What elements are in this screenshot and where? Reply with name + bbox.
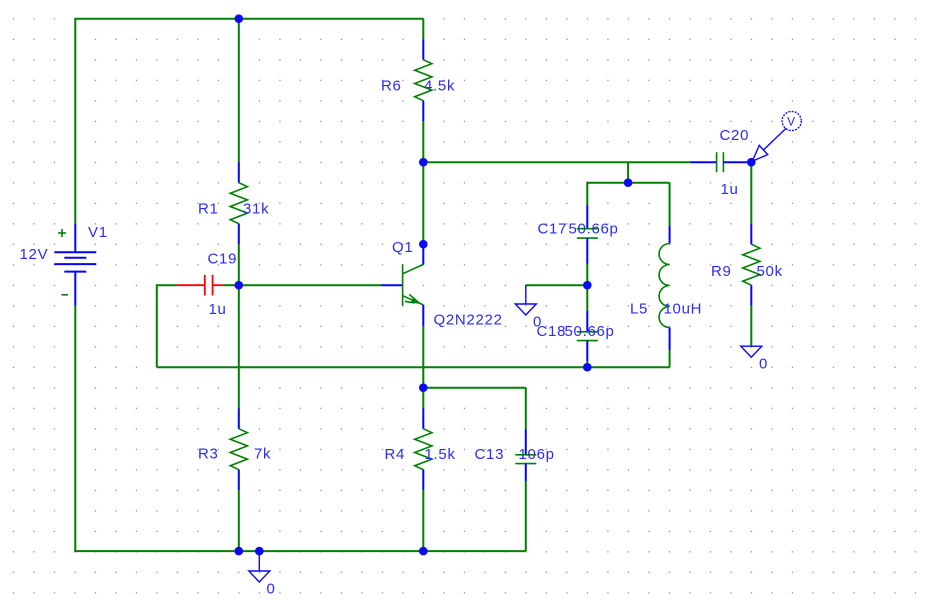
svg-text:31k: 31k <box>243 201 269 218</box>
capacitor C17 <box>577 182 598 286</box>
label 1u (C19) <box>209 301 227 318</box>
label R3 <box>198 446 219 463</box>
junction top rail / R1 <box>235 14 244 23</box>
svg-text:7k: 7k <box>254 446 271 463</box>
wire left rail upper <box>74 18 76 224</box>
label R4 <box>385 446 406 463</box>
voltage probe V <box>752 111 801 161</box>
svg-text:C17: C17 <box>538 221 568 238</box>
ground (R9) <box>741 346 762 357</box>
svg-text:R4: R4 <box>385 446 406 463</box>
ground (bottom rail) <box>249 551 270 582</box>
label R1 <box>198 201 219 218</box>
resistor R6 <box>415 39 432 121</box>
svg-text:106p: 106p <box>519 446 555 463</box>
svg-text:V1: V1 <box>88 224 108 241</box>
label 31k <box>243 201 269 218</box>
label V (probe) <box>787 115 796 129</box>
label 106p <box>519 446 555 463</box>
label R6 <box>381 78 402 95</box>
wire collector rail <box>423 161 690 163</box>
label 10uH <box>664 301 703 318</box>
svg-text:L5: L5 <box>630 301 648 318</box>
label Q1 <box>392 239 413 256</box>
svg-text:R3: R3 <box>198 446 219 463</box>
wire tank drop <box>627 162 629 183</box>
label C13 <box>475 446 505 463</box>
label 0 (tank ground) <box>533 314 542 331</box>
resistor R3 <box>230 285 247 551</box>
junction bottom rail / R3 <box>235 547 244 556</box>
label 0 (bottom ground) <box>267 581 276 598</box>
wire feedback bottom run <box>157 366 670 368</box>
junction bottom rail / ground <box>255 547 264 556</box>
wire tank top branch <box>587 182 669 184</box>
svg-text:V: V <box>787 115 796 129</box>
label 50.66p (C18) <box>565 323 615 340</box>
svg-text:R1: R1 <box>198 201 219 218</box>
svg-text:Q1: Q1 <box>392 239 413 256</box>
svg-text:1.5k: 1.5k <box>425 446 456 463</box>
svg-text:10uH: 10uH <box>664 301 703 318</box>
svg-text:0: 0 <box>759 356 768 373</box>
wire top rail <box>75 18 423 20</box>
junction collector rail / R6 <box>419 158 428 167</box>
svg-text:50k: 50k <box>757 263 783 280</box>
wire left rail lower <box>74 306 76 551</box>
junction tank top <box>624 178 633 187</box>
junction tank bottom <box>583 363 592 372</box>
junction base node <box>235 281 244 290</box>
svg-text:4.5k: 4.5k <box>424 78 455 95</box>
capacitor C20 <box>690 152 752 172</box>
ground (tank midpoint) <box>515 285 536 315</box>
label R9 <box>711 263 732 280</box>
junction output node <box>747 158 756 167</box>
capacitor C13 <box>515 388 536 551</box>
wire ground spur (tank midpoint) <box>526 284 588 286</box>
svg-text:C20: C20 <box>720 127 750 144</box>
label C19 <box>208 251 238 268</box>
wire R1 column top <box>238 19 240 163</box>
label L5 <box>630 301 648 318</box>
label 50.66p (C17) <box>569 221 619 238</box>
wire emitter <box>422 326 424 388</box>
wire base <box>239 284 381 286</box>
svg-text:C18: C18 <box>537 323 567 340</box>
svg-text:1u: 1u <box>209 301 227 318</box>
label 1u (C20) <box>721 181 739 198</box>
voltage source V1 <box>54 224 96 306</box>
label C18 <box>537 323 567 340</box>
wire R6 column top stub <box>422 19 424 40</box>
svg-text:Q2N2222: Q2N2222 <box>434 312 503 329</box>
label C20 <box>720 127 750 144</box>
wire collector <box>422 162 424 244</box>
capacitor C18 <box>577 285 598 367</box>
junction emitter node <box>419 383 428 392</box>
label 1.5k <box>425 446 456 463</box>
label 7k <box>254 446 271 463</box>
wire bottom rail <box>74 550 526 552</box>
resistor R1 <box>230 162 247 244</box>
wire emitter node to C13 <box>423 387 526 389</box>
resistor R4 <box>415 388 432 551</box>
label 0 (R9 ground) <box>759 356 768 373</box>
label V1 <box>88 224 108 241</box>
label 50k <box>757 263 783 280</box>
junction bottom rail / R4 <box>419 547 428 556</box>
svg-text:1u: 1u <box>721 181 739 198</box>
wire R1 bottom to base node <box>238 244 240 285</box>
label C17 <box>538 221 568 238</box>
capacitor C19 <box>157 275 239 296</box>
svg-text:R9: R9 <box>711 263 732 280</box>
label Q2N2222 <box>434 312 503 329</box>
svg-text:C13: C13 <box>475 446 505 463</box>
svg-text:0: 0 <box>267 581 276 598</box>
svg-text:50.66p: 50.66p <box>565 323 615 340</box>
label 4.5k <box>424 78 455 95</box>
svg-text:50.66p: 50.66p <box>569 221 619 238</box>
inductor L5 <box>659 183 670 368</box>
resistor R9 <box>743 162 760 346</box>
svg-text:12V: 12V <box>20 246 49 263</box>
label 12V <box>20 246 49 263</box>
svg-text:R6: R6 <box>381 78 402 95</box>
junction collector pin <box>419 240 428 249</box>
svg-text:C19: C19 <box>208 251 238 268</box>
junction tank midpoint <box>583 281 592 290</box>
wire feedback left vertical <box>156 284 158 367</box>
wire R6 bottom <box>422 121 424 162</box>
transistor Q1 <box>381 244 423 326</box>
